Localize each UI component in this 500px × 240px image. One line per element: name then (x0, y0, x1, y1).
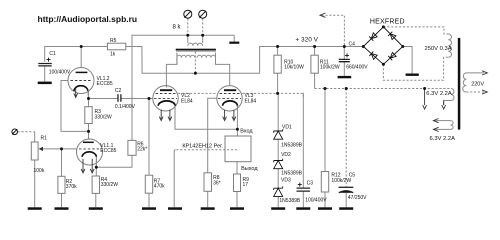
svg-text:0.1/400V: 0.1/400V (115, 104, 136, 110)
svg-text:6.3V 2.2A: 6.3V 2.2A (430, 136, 456, 142)
svg-text:ECC85: ECC85 (100, 148, 116, 154)
svg-text:http://Audioportal.spb.ru: http://Audioportal.spb.ru (38, 14, 138, 24)
svg-text:47/250V: 47/250V (348, 195, 367, 201)
svg-text:C2: C2 (115, 88, 122, 94)
svg-text:КР142ЕН12 Рег.: КР142ЕН12 Рег. (182, 144, 223, 150)
svg-text:100/400V: 100/400V (49, 70, 71, 76)
svg-text:R1: R1 (41, 136, 48, 142)
svg-text:330/2W: 330/2W (101, 182, 119, 188)
svg-text:VD1: VD1 (282, 124, 292, 130)
svg-text:ECC85: ECC85 (97, 81, 113, 87)
svg-text:EL84: EL84 (245, 99, 257, 105)
svg-text:1N5389B: 1N5389B (281, 170, 303, 176)
svg-text:C5: C5 (349, 173, 356, 179)
svg-text:100k/2W: 100k/2W (331, 178, 351, 184)
svg-text:R5: R5 (110, 38, 117, 44)
svg-text:660/400V: 660/400V (346, 65, 368, 71)
svg-text:C1: C1 (49, 51, 56, 57)
svg-text:VD2: VD2 (281, 152, 291, 158)
svg-text:HEXFRED: HEXFRED (370, 19, 405, 26)
svg-text:1N5389B: 1N5389B (281, 142, 303, 148)
svg-text:220V: 220V (471, 81, 484, 87)
svg-text:10k/10W: 10k/10W (284, 65, 304, 71)
svg-text:1k: 1k (110, 52, 116, 58)
svg-text:36*: 36* (213, 180, 221, 186)
svg-text:C3: C3 (307, 180, 314, 186)
svg-text:22k*: 22k* (137, 146, 147, 152)
svg-text:+ 320 V: + 320 V (296, 37, 319, 44)
svg-text:EL84: EL84 (181, 99, 193, 105)
svg-text:250V 0.3A: 250V 0.3A (425, 46, 452, 52)
svg-text:1N5389B: 1N5389B (279, 198, 301, 204)
svg-text:Вход: Вход (240, 128, 253, 134)
svg-text:100k/2W: 100k/2W (320, 65, 340, 71)
svg-text:100/400V: 100/400V (305, 197, 327, 203)
svg-text:6.3V 2.2A: 6.3V 2.2A (426, 91, 452, 97)
svg-text:370k: 370k (66, 184, 77, 190)
svg-text:470k: 470k (154, 183, 165, 189)
svg-text:100k: 100k (34, 168, 45, 174)
svg-text:17: 17 (243, 182, 249, 188)
svg-text:8 k: 8 k (173, 25, 182, 31)
svg-text:Выход: Выход (241, 166, 258, 172)
svg-text:VD3: VD3 (281, 178, 291, 184)
svg-text:C4: C4 (349, 41, 356, 47)
svg-text:330/2W: 330/2W (95, 114, 113, 120)
